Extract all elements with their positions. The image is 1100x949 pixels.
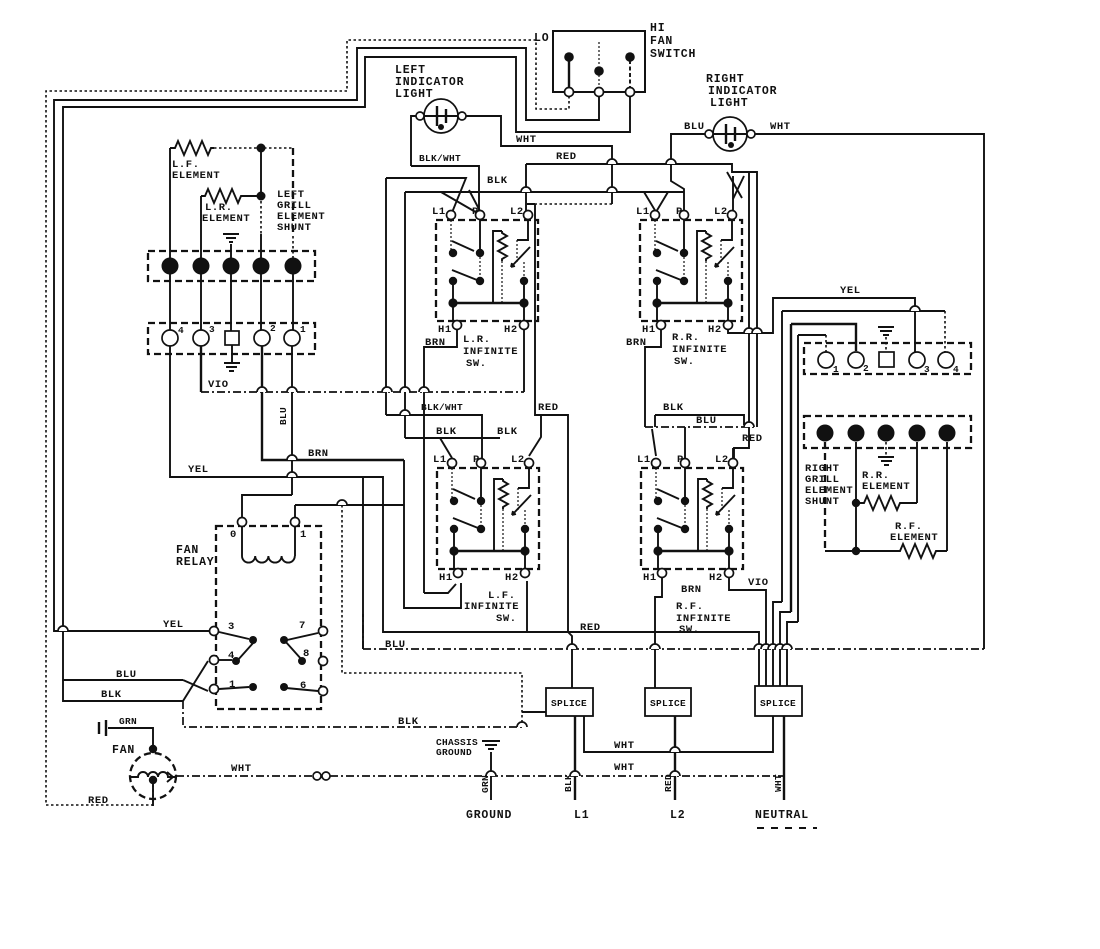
wire right block terminal1 elbow into splice 3: [787, 622, 798, 688]
hops on RED top: [607, 159, 617, 164]
wire BLK bus left leg down to L.F. P feed: [386, 192, 482, 458]
relay coil terminal 0: [238, 518, 247, 527]
wire BLK branch to relay terminal 4: [183, 661, 208, 701]
svg-text:L2: L2: [670, 809, 685, 822]
feed diagonals to R.R. L1: [644, 192, 668, 212]
svg-text:RED: RED: [663, 774, 674, 792]
hop on YEL left at border: [58, 626, 68, 631]
relay stub 6: [286, 688, 318, 691]
block terminal 4: [938, 352, 954, 368]
svg-text:SWITCH: SWITCH: [650, 48, 696, 61]
svg-text:BLU: BLU: [696, 415, 717, 427]
svg-text:BLK: BLK: [497, 426, 518, 438]
block terminal 1: [818, 352, 834, 368]
fan motor winding: [131, 772, 176, 777]
wire WHT right border: [755, 134, 984, 649]
connector pin 4: [909, 425, 926, 442]
left terminal strip box: [148, 323, 315, 354]
svg-text:ELEMENT: ELEMENT: [172, 170, 220, 182]
op: L.R. infinite switch U1: [432, 206, 538, 336]
svg-text:VIO: VIO: [208, 379, 229, 391]
fan switch terminal 3: [626, 88, 635, 97]
svg-text:7: 7: [299, 620, 306, 632]
relay contact dot 6: [280, 683, 288, 691]
wire from L.F. H2 nested to BLU long line: [526, 581, 528, 632]
svg-text:BLK: BLK: [563, 774, 574, 792]
svg-text:BLK: BLK: [487, 175, 508, 187]
hops on VIO line: [257, 387, 267, 392]
junction dot R.R. element: [852, 499, 860, 507]
svg-text:WHT: WHT: [516, 134, 537, 146]
relay contact dot 4: [232, 657, 240, 665]
connector pin 1: [817, 425, 834, 442]
svg-text:BLU: BLU: [278, 407, 289, 425]
svg-text:LIGHT: LIGHT: [395, 88, 434, 101]
wire YEL from R.R. H2 to right terminal block: [728, 298, 915, 352]
op: R.R. infinite switch U2: [636, 206, 742, 336]
svg-text:RELAY: RELAY: [176, 556, 215, 569]
right indicator dot: [728, 142, 734, 148]
wire shunt dashed from pin 1: [824, 442, 826, 551]
wire VIO from strip t3: [200, 346, 202, 392]
svg-text:1: 1: [300, 529, 307, 541]
relay contact dot 1b: [249, 683, 257, 691]
wire BLK branch of left border: [63, 680, 183, 701]
wire WHT jumper under splices: [584, 716, 773, 752]
wire pin5 to strip t1: [292, 274, 294, 330]
block terminal 3: [909, 352, 925, 368]
svg-text:WHT: WHT: [231, 763, 252, 775]
wire BLK bus: [386, 178, 466, 415]
strip terminal 4: [162, 330, 178, 346]
relay stub 1b: [219, 687, 249, 689]
wire fan motor bottom lead: [152, 780, 154, 806]
left indicator filament bars: [437, 106, 446, 126]
wire relay coil terminal 1 feed: [294, 505, 296, 517]
wire WHT from fan motor: [176, 775, 784, 777]
wire RED vertical to L.F. area: [526, 164, 568, 632]
svg-text:RED: RED: [88, 795, 109, 807]
hops on YEL line: [287, 472, 297, 477]
relay stub terminal 4: [219, 659, 232, 661]
svg-text:INFINITE: INFINITE: [463, 346, 518, 358]
wire shunt mid vertical: [260, 196, 262, 234]
svg-text:SPLICE: SPLICE: [551, 698, 587, 709]
hop on BLK bottom bus: [517, 722, 527, 727]
wire branch to L.R. P terminal: [411, 166, 479, 213]
junction dot at shunt top: [257, 144, 266, 153]
hops on WHT long line: [486, 771, 496, 776]
wire L2 drop from splice 2: [674, 716, 676, 800]
svg-text:BLU: BLU: [116, 669, 137, 681]
svg-text:SW.: SW.: [674, 356, 695, 368]
svg-text:BLU: BLU: [385, 639, 406, 651]
svg-text:BLK: BLK: [663, 402, 684, 414]
connector pin 5: [939, 425, 956, 442]
svg-text:6: 6: [300, 680, 307, 692]
svg-text:FAN: FAN: [650, 35, 673, 48]
wire relay aux horizontal: [295, 504, 404, 506]
svg-text:FAN: FAN: [112, 744, 135, 757]
svg-text:GRN: GRN: [480, 775, 491, 793]
right connector box: [804, 416, 971, 448]
left indicator lamp body: [424, 99, 458, 133]
svg-text:SHUNT: SHUNT: [277, 222, 312, 234]
wire shunt lower dotted: [292, 236, 294, 258]
svg-text:L1: L1: [574, 809, 589, 822]
fan switch terminal 2: [595, 88, 604, 97]
wire pin3 to strip square: [230, 274, 232, 331]
right indicator filament bars: [726, 124, 735, 144]
strip square terminal: [225, 331, 239, 345]
feed diagonal to R.F. L1: [652, 429, 656, 456]
wire BRN from strip t2: [262, 346, 404, 460]
splice 1 box: [546, 688, 593, 716]
left indicator right terminal: [458, 112, 466, 120]
junction dot L.R. right lead: [257, 192, 266, 201]
wire BLK bus for L.F. L1: [405, 437, 500, 439]
wire right block terminal2 elbow into splice 3: [780, 612, 791, 688]
svg-text:R.R.: R.R.: [672, 332, 700, 344]
svg-text:GRN: GRN: [119, 716, 137, 727]
hops on BLU long line: [567, 644, 577, 649]
wire relay aux dotted vertical to splice 1: [342, 505, 522, 727]
svg-text:ELEMENT: ELEMENT: [890, 532, 938, 544]
wire right block terminal1 feed: [797, 335, 799, 622]
wire L.F. element right lead: [214, 147, 293, 149]
svg-text:WHT: WHT: [614, 762, 635, 774]
feed vertical to R.F. P: [684, 427, 686, 458]
svg-text:3: 3: [924, 364, 930, 375]
svg-text:SW.: SW.: [496, 613, 517, 625]
fan switch pole 2 contact: [594, 66, 604, 76]
relay contact dot 7: [280, 636, 288, 644]
wire from R.F. H1 to splice 2: [655, 578, 662, 688]
connector pin 3: [878, 425, 895, 442]
svg-text:WHT: WHT: [773, 774, 784, 792]
wire splice1 left stub: [522, 711, 546, 713]
svg-text:LIGHT: LIGHT: [710, 97, 749, 110]
wire feed block terminal 2: [791, 324, 856, 351]
splice 2 box: [645, 688, 691, 716]
wire L1 drop from splice 1: [574, 716, 576, 800]
svg-text:BLU: BLU: [684, 121, 705, 133]
svg-text:INFINITE: INFINITE: [464, 601, 519, 613]
fan motor body (dashed circle): [130, 753, 176, 799]
svg-text:WHT: WHT: [770, 121, 791, 133]
svg-text:BLK: BLK: [398, 716, 419, 728]
wire WHT from left indicator right terminal: [466, 116, 612, 204]
wire fan sw term2 to left border then YEL to fan relay: [54, 48, 599, 631]
hop on t4 feed: [910, 306, 920, 311]
fan switch terminal 1: [565, 88, 574, 97]
fan motor center dot: [149, 776, 157, 784]
feed diagonals to R.R. L2 (X): [727, 172, 744, 199]
wire L.R. element right lead: [243, 195, 261, 197]
hops on BLK/WHT line: [400, 410, 410, 415]
svg-text:BLK: BLK: [101, 689, 122, 701]
svg-text:RED: RED: [742, 433, 763, 445]
connector pin 5: [285, 258, 302, 275]
wire RED into R.F. L2: [732, 448, 734, 458]
fan motor arrow: [167, 772, 173, 782]
feed diagonals to L.R. L1: [405, 192, 684, 214]
connector pin 1: [162, 258, 179, 275]
op: R.F. infinite switch U4: [637, 454, 743, 584]
svg-text:GROUND: GROUND: [466, 809, 512, 822]
connector pin 2: [848, 425, 865, 442]
svg-text:0: 0: [230, 529, 237, 541]
svg-text:R.F.: R.F.: [676, 601, 704, 613]
svg-text:2: 2: [863, 363, 869, 374]
wire pin2 to strip t3: [200, 274, 202, 330]
left indicator left terminal: [416, 112, 424, 120]
relay coil terminal 1: [291, 518, 300, 527]
fan switch pole 1 contact: [564, 52, 574, 62]
feed diagonal to L.F. L2 from RED: [529, 415, 541, 456]
svg-text:ELEMENT: ELEMENT: [202, 213, 250, 225]
svg-text:RED: RED: [556, 151, 577, 163]
svg-text:INFINITE: INFINITE: [672, 344, 727, 356]
wire YEL from strip t4: [170, 346, 759, 688]
svg-text:YEL: YEL: [188, 464, 209, 476]
wire pin4 to strip t2: [260, 274, 262, 330]
relay coil: [242, 527, 295, 563]
splice 3 box: [755, 686, 802, 716]
ground symbol below strip square: [224, 345, 240, 371]
svg-text:1: 1: [300, 324, 306, 335]
relay contact terminal 1b: [210, 685, 219, 694]
wire BLU leg to bus: [654, 415, 656, 427]
wire BLU to right indicator: [671, 134, 705, 212]
wire pin 4 down to R.R. element: [916, 442, 918, 503]
svg-text:WHT: WHT: [614, 740, 635, 752]
svg-text:4: 4: [178, 325, 184, 336]
svg-text:ELEMENT: ELEMENT: [862, 481, 910, 493]
svg-text:3: 3: [209, 324, 215, 335]
wire fan sw term3 to left border then BLU/BLK to fan relay: [63, 57, 630, 680]
hops on WHT jumper: [670, 747, 680, 752]
relay contact terminal 8: [319, 657, 328, 666]
resistor R.F. ELEMENT: [825, 544, 947, 558]
svg-text:BRN: BRN: [681, 584, 702, 596]
hop on BLU bus R.F.: [744, 422, 754, 427]
relay contact dot 3: [249, 636, 257, 644]
wire ground to square: [885, 337, 887, 352]
left connector box: [148, 251, 315, 281]
wire BLU bus above R.F. switch: [645, 426, 757, 428]
inline connector circles on WHT: [313, 772, 321, 780]
relay blade 7: [287, 633, 318, 640]
svg-text:BRN: BRN: [626, 337, 647, 349]
svg-text:VIO: VIO: [748, 577, 769, 589]
svg-text:BLK/WHT: BLK/WHT: [421, 402, 463, 413]
wire BLU vertical right of R.R. switch: [749, 172, 757, 427]
resistor L.R. ELEMENT: [201, 189, 243, 203]
svg-text:1: 1: [833, 364, 839, 375]
fan relay box: [216, 526, 321, 709]
fan switch pole 3 stem: [629, 60, 631, 88]
strip terminal 3: [193, 330, 209, 346]
connector pin 3: [223, 258, 240, 275]
resistor R.R. ELEMENT: [860, 496, 917, 510]
relay contact terminal 6: [319, 687, 328, 696]
wire feed t4 dotted drop: [944, 311, 946, 352]
ground below connector pin 3: [885, 442, 887, 455]
svg-text:YEL: YEL: [840, 285, 861, 297]
svg-text:SPLICE: SPLICE: [760, 698, 796, 709]
wire BLU long bottom line: [363, 614, 984, 649]
ground symbol above connector dot 3: [223, 234, 239, 258]
wire feed block terminal 4: [782, 310, 945, 312]
svg-text:BRN: BRN: [308, 448, 329, 460]
wire BLK above R.F. switch: [655, 415, 744, 425]
wire NEUTRAL drop from splice 3: [783, 716, 785, 800]
wire L.F. element left lead: [169, 148, 171, 258]
relay contact terminal 4: [210, 656, 219, 665]
fan switch pole 2 stem: [598, 42, 600, 88]
wire pin 5 down to R.F. element: [946, 442, 948, 551]
svg-text:BLK/WHT: BLK/WHT: [419, 153, 461, 164]
svg-text:RED: RED: [538, 402, 559, 414]
wire BRN from R.R. H1: [645, 330, 661, 427]
wire L.R. element left lead: [200, 196, 202, 258]
svg-text:SHUNT: SHUNT: [805, 496, 840, 508]
wire VIO from R.F. H2 to splice 3: [729, 578, 766, 688]
wire left grill element shunt (dashed): [292, 148, 294, 236]
feed diagonal to R.R. P: [732, 176, 734, 211]
svg-text:BLK: BLK: [436, 426, 457, 438]
fan switch pole 1 stem: [568, 60, 570, 88]
svg-text:3: 3: [228, 621, 235, 633]
feed diagonal to L.F. L1: [440, 438, 452, 458]
ground symbol above block square: [878, 327, 894, 335]
wire right block terminal4 elbow into splice 3: [773, 602, 782, 688]
connector pin 2: [193, 258, 210, 275]
right terminal block box: [804, 343, 971, 374]
feed diagonal to L.R. P: [469, 190, 480, 211]
svg-text:2: 2: [270, 323, 276, 334]
wire GRN from fan motor: [108, 728, 153, 749]
resistor L.F. ELEMENT: [170, 141, 214, 155]
strip terminal 2: [254, 330, 270, 346]
dashes under NEUTRAL: [757, 827, 817, 829]
wire BLK bus to splice 1: [183, 701, 522, 727]
wire BRN from L.R. H1: [424, 330, 457, 593]
wire BLU branch to relay terminal 1: [183, 680, 208, 691]
svg-text:L.R.: L.R.: [463, 334, 491, 346]
svg-text:YEL: YEL: [163, 619, 184, 631]
wire dotted feed to L.R. L2: [535, 203, 612, 205]
block square terminal: [879, 352, 894, 367]
relay contact dot 8: [298, 657, 306, 665]
svg-text:HI: HI: [650, 22, 665, 35]
wire from L.F. H1 to BRN column: [424, 584, 456, 593]
hops on BRN line: [287, 455, 297, 460]
fan motor top junction dot: [149, 745, 157, 753]
capacitor symbol: [99, 720, 106, 736]
wire BLK/WHT from left indicator down mid column: [411, 116, 416, 166]
hops on upper BLK bus: [521, 187, 531, 192]
block terminal 2: [848, 352, 864, 368]
wire right block terminal2 feed: [790, 324, 792, 612]
relay contact terminal 7: [319, 627, 328, 636]
relay arm 7-8: [285, 641, 302, 660]
hops on R.R. H2 line: [744, 328, 754, 333]
wire VIO dotted run to L.R. H2: [201, 391, 524, 393]
wire RED elbow into splice 1: [568, 632, 572, 688]
wire shunt top vertical: [260, 148, 262, 196]
op: L.F. infinite switch U3: [433, 454, 539, 584]
wire right block terminal4 feed: [781, 311, 783, 602]
junction dot R.F. line: [852, 547, 860, 555]
right indicator left terminal: [705, 130, 713, 138]
strip terminal 1: [284, 330, 300, 346]
relay blade 3: [219, 632, 249, 639]
relay contact terminal 3: [210, 627, 219, 636]
wire fan sw term1 to left border (dotted) then RED to fan motor: [46, 40, 569, 805]
wire feed t1 dotted drop: [825, 335, 827, 352]
wire VIO from L.R. H2 down to terminal strip line: [523, 330, 525, 392]
svg-text:GROUND: GROUND: [436, 747, 472, 758]
relay arm 3-4: [237, 642, 254, 661]
wire pin1 to strip t4: [169, 274, 171, 330]
wire to connector dot 4: [260, 234, 262, 258]
left indicator dot: [438, 124, 444, 130]
svg-text:SW.: SW.: [679, 624, 700, 636]
svg-text:NEUTRAL: NEUTRAL: [755, 809, 809, 822]
chassis ground symbol: [482, 741, 500, 800]
wire from pin 2 down: [855, 442, 857, 551]
right indicator lamp body: [713, 117, 747, 151]
wire feed block terminal 1: [798, 334, 826, 336]
svg-text:4: 4: [953, 364, 959, 375]
svg-text:RED: RED: [580, 622, 601, 634]
fan switch box: [553, 31, 645, 92]
wire RED horizontal top: [526, 164, 749, 458]
svg-text:BRN: BRN: [425, 337, 446, 349]
svg-text:SW.: SW.: [466, 358, 487, 370]
right indicator right terminal: [747, 130, 755, 138]
fan switch pole 3 contact: [625, 52, 635, 62]
svg-text:SPLICE: SPLICE: [650, 698, 686, 709]
connector pin 4: [253, 258, 270, 275]
wire BLU from strip t1 to relay coil: [242, 346, 292, 517]
